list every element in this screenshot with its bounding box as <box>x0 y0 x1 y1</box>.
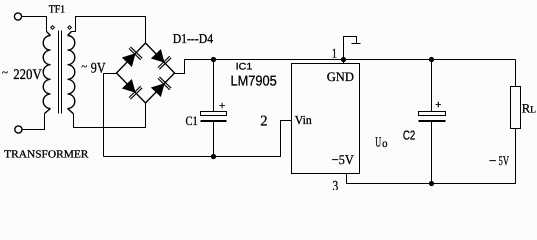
svg-text:GND: GND <box>327 69 354 84</box>
svg-text:1: 1 <box>332 46 337 61</box>
capacitor C2 bottom lead <box>431 122 433 184</box>
diode D2 upper-right <box>152 50 171 69</box>
wire pin3 to output rail and RL bottom <box>347 129 516 184</box>
wire bridge right vertex step up to top rail <box>175 60 516 74</box>
wire bridge left vertex stub down (DC minus) <box>104 74 117 157</box>
wire top rail right corner down to RL <box>515 60 517 87</box>
svg-text:Vin: Vin <box>295 113 312 127</box>
junction dot C1 top <box>211 57 216 62</box>
transformer TF1 primary top terminal <box>14 13 21 20</box>
capacitor C1 bottom lead <box>213 122 215 157</box>
svg-text:TRANSFORMER: TRANSFORMER <box>4 148 89 160</box>
svg-text:3: 3 <box>333 179 339 191</box>
svg-text:9V: 9V <box>91 60 106 76</box>
capacitor C2 minus plate <box>419 120 446 122</box>
wire secondary bottom lead to bridge bottom <box>68 109 74 114</box>
svg-text:−5V: −5V <box>489 153 509 168</box>
capacitor C1 minus plate <box>201 120 227 122</box>
wire input bottom rail to pin 2 <box>104 121 292 157</box>
svg-text:−5V: −5V <box>332 152 355 167</box>
transformer core <box>58 31 60 114</box>
diode D1 upper-left <box>123 47 142 66</box>
svg-text:D1---D4: D1---D4 <box>173 31 214 46</box>
transformer TF1 secondary winding <box>68 36 75 109</box>
polarity dot primary <box>51 26 55 30</box>
wire primary top lead <box>22 17 47 32</box>
junction dot C2 top <box>429 57 434 62</box>
svg-text:RL: RL <box>522 101 536 115</box>
svg-text:220V: 220V <box>13 67 42 83</box>
svg-text:2: 2 <box>260 114 267 130</box>
junction dot pin1 <box>341 57 346 62</box>
svg-text:+: + <box>435 99 441 111</box>
ground symbol <box>344 37 357 60</box>
svg-text:C1: C1 <box>186 114 198 128</box>
capacitor C1 plus plate <box>201 112 227 116</box>
transformer TF1 primary winding <box>43 36 50 109</box>
svg-text:o: o <box>382 138 388 150</box>
capacitor C2 top lead <box>431 60 433 112</box>
capacitor C1 top lead <box>213 60 215 112</box>
svg-text:~: ~ <box>81 61 87 73</box>
wire pin1 to top rail <box>343 60 345 64</box>
bridge rectifier diamond wires <box>117 43 175 103</box>
svg-text:+: + <box>219 100 225 112</box>
polarity dot secondary <box>68 26 72 30</box>
svg-text:U: U <box>375 135 381 150</box>
svg-text:~: ~ <box>2 67 8 79</box>
svg-text:LM7905: LM7905 <box>231 73 277 89</box>
capacitor C2 plus plate <box>419 112 446 116</box>
wire secondary top lead to bridge top <box>68 32 72 36</box>
svg-text:TF1: TF1 <box>49 3 65 15</box>
svg-text:IC1: IC1 <box>236 62 253 73</box>
IC U1 LM7905 box <box>292 64 360 174</box>
resistor RL box <box>511 87 521 129</box>
transformer TF1 primary bottom terminal <box>15 126 22 133</box>
junction dot C1 bottom <box>211 154 216 159</box>
diode D4 lower-right <box>152 77 171 96</box>
svg-text:C2: C2 <box>403 127 415 142</box>
diode D3 lower-left <box>123 80 142 99</box>
junction dot C2 bottom <box>429 181 434 186</box>
wire primary bottom lead <box>45 109 51 114</box>
